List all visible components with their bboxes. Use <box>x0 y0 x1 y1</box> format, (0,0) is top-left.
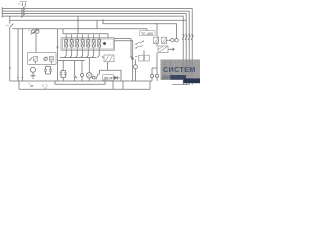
wire low link x113 <box>112 81 114 89</box>
switch SA1 <box>6 16 13 27</box>
wire low left link <box>18 81 20 89</box>
wire drop m2 <box>88 58 90 71</box>
node stub dots <box>66 36 100 37</box>
wire rail x22 <box>22 29 24 81</box>
wire bottom low <box>19 88 150 90</box>
diode VD3 <box>113 76 119 80</box>
wire low link x150 <box>149 81 151 89</box>
connector X3 <box>92 74 98 80</box>
wire inner feed <box>63 29 108 38</box>
wire bottom bus <box>10 80 152 82</box>
capacitor C2 <box>60 71 67 82</box>
node dot rail18 <box>17 77 19 79</box>
wire drop x177 <box>176 24 178 39</box>
lamp HL3 <box>155 70 158 81</box>
wire drop s2 <box>74 61 76 71</box>
wire left rail <box>9 28 11 82</box>
wire rail x18 <box>17 29 19 81</box>
wire L2 bus <box>2 11 189 85</box>
wire top link <box>99 70 101 74</box>
wire drop x97 <box>96 20 98 29</box>
breaker QF1 <box>18 1 27 17</box>
wire N bus <box>2 16 183 85</box>
label DV1 <box>103 75 113 81</box>
lamp HL2 <box>150 68 153 81</box>
wire bottom link <box>100 70 122 81</box>
motor M2 <box>87 70 92 81</box>
node dot A <box>9 67 11 69</box>
wire plug pins <box>65 50 100 57</box>
contact S3 <box>131 56 138 60</box>
wire L3 bus <box>2 14 186 85</box>
wire control bus <box>10 19 186 21</box>
contactor KM2 <box>44 57 56 65</box>
wire drop c2 <box>62 61 64 71</box>
rectifier VD1 <box>157 43 174 52</box>
wire watermark overlay phases <box>165 60 192 80</box>
wire row feed <box>13 29 148 31</box>
ground <box>31 75 36 78</box>
terminal block XT1 <box>61 38 115 50</box>
capacitor C1 <box>44 67 52 75</box>
wire bottom right <box>172 84 189 86</box>
svg-text:СИСТЕМ: СИСТЕМ <box>163 65 196 74</box>
lamp HL1 <box>134 60 138 82</box>
wire cell stubs <box>66 34 99 40</box>
wire low link x123 <box>122 81 124 89</box>
wire drop hl0 <box>81 61 83 71</box>
lamp HL0 <box>81 70 84 81</box>
wire drop x78 <box>77 16 79 34</box>
wire enclosure bottom <box>58 60 86 62</box>
node dot control-1 <box>102 19 104 21</box>
label TC-400 <box>140 31 156 36</box>
motor M1 <box>31 67 36 75</box>
fuse FU1 <box>28 28 40 53</box>
transformer T1 <box>154 37 171 43</box>
relay K3 <box>139 51 149 62</box>
contact S2 <box>74 70 77 81</box>
contact S1 <box>135 41 144 49</box>
wire enclosure left <box>57 29 59 81</box>
watermark box <box>161 60 201 84</box>
wire aux bus <box>103 20 177 24</box>
node dot aux <box>156 23 158 25</box>
wire contactor box <box>28 53 57 65</box>
wire drop x157 <box>156 24 158 37</box>
wire arrow marks <box>29 83 34 87</box>
svg-text:ДВ1Ф: ДВ1Ф <box>104 76 113 80</box>
breaker QF2 <box>182 35 193 40</box>
fuse FU2 <box>102 55 115 70</box>
svg-text:TC-400: TC-400 <box>141 32 153 36</box>
wire L1 bus <box>2 9 192 85</box>
connector X2 <box>171 39 179 42</box>
wire lamp feed <box>152 53 157 71</box>
node dot rail22 <box>22 77 24 79</box>
node dot XT1 out <box>103 42 106 45</box>
node left terminals <box>1 7 3 18</box>
wire bottom mid <box>55 81 105 84</box>
node tick x57 <box>56 46 58 48</box>
wire tick marks <box>43 84 48 88</box>
wire box to relay <box>115 39 133 81</box>
wire hook bar <box>60 57 97 59</box>
contactor KM1 <box>29 57 40 65</box>
